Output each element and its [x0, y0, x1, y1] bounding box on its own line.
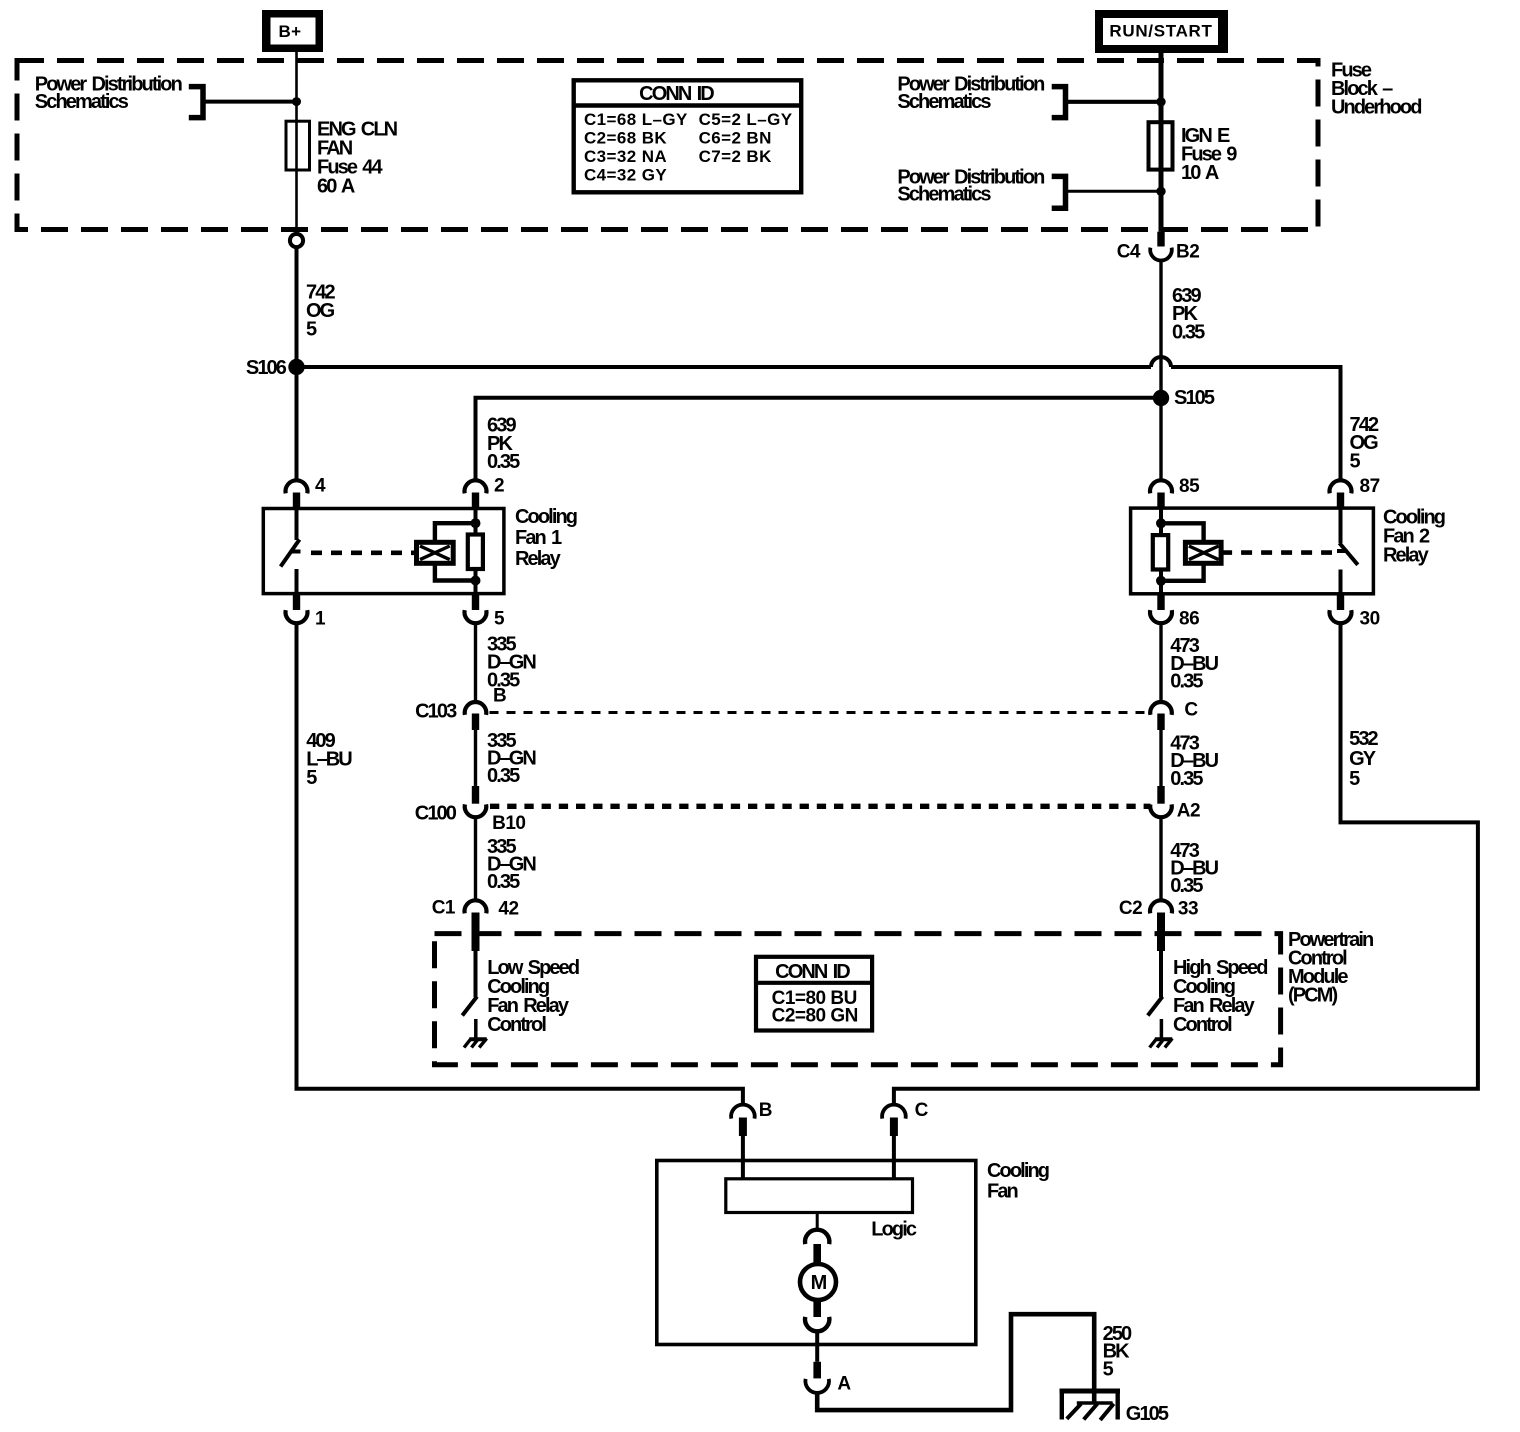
off-page bracket (left) [189, 87, 203, 118]
wire B into logic module [741, 1136, 745, 1179]
wire 473 D-BU C to A2 [1159, 730, 1162, 786]
wire 335 D-GN C103 to C100 [474, 730, 477, 786]
wire branch down to relay 2 pin 87 [1339, 365, 1343, 480]
svg-text:Schematics: Schematics [35, 91, 129, 113]
svg-text:G105: G105 [1126, 1403, 1169, 1425]
svg-text:C4=32 GY: C4=32 GY [584, 165, 667, 184]
wire 409 L-BU 5 to cooling fan terminal B [297, 624, 743, 1104]
svg-text:C: C [1184, 700, 1198, 721]
junction dot IGN feed [1156, 97, 1165, 106]
svg-text:30: 30 [1360, 608, 1380, 629]
svg-text:CONN ID: CONN ID [775, 961, 850, 983]
svg-text:B+: B+ [278, 22, 301, 41]
connector C4 / B2 [1157, 232, 1164, 247]
svg-text:RUN/START: RUN/START [1109, 21, 1212, 40]
connector C103 terminal C (right) [1150, 702, 1172, 715]
svg-text:60 A: 60 A [317, 175, 355, 197]
svg-text:Schematics: Schematics [897, 91, 991, 113]
relay 1 pin 1 connector [293, 594, 300, 610]
svg-text:(PCM): (PCM) [1288, 984, 1338, 1006]
svg-text:A2: A2 [1177, 800, 1200, 821]
junction dot B+ feed [292, 97, 301, 106]
wire 335 D-GN C100 to PCM C1 [474, 817, 477, 898]
relay 1 coil crossed box [417, 542, 454, 563]
wire motor to terminal A [815, 1331, 819, 1362]
svg-text:C3=32 NA: C3=32 NA [584, 147, 667, 166]
PCM ground (high speed) [1155, 1037, 1172, 1041]
svg-text:2: 2 [494, 475, 504, 496]
connector terminal A (cooling fan) [813, 1362, 821, 1379]
svg-text:C6=2 BN: C6=2 BN [699, 129, 772, 148]
svg-text:Schematics: Schematics [897, 184, 991, 206]
wire C into logic module [892, 1136, 896, 1179]
relay 2 pin 30 connector [1337, 594, 1344, 610]
relay 1 switch [295, 509, 299, 541]
wire B+ drop [295, 52, 298, 122]
PCM ground (low speed) [469, 1037, 486, 1041]
svg-text:M: M [811, 1272, 827, 1294]
svg-text:Control: Control [1173, 1014, 1232, 1036]
relay 1 coil element [474, 509, 478, 536]
cooling fan logic module box [726, 1179, 913, 1213]
wire 473 D-BU A2 to PCM C2 [1159, 817, 1162, 898]
junction dot fuse 9 output [1156, 187, 1165, 196]
svg-text:Cooling: Cooling [515, 506, 577, 528]
wire S106 bus to cooling fan 2 relay [297, 365, 1152, 369]
relay 2 pin 87 connector [1330, 480, 1352, 493]
fuse ENG CLN FAN Fuse 44 60 A [286, 121, 310, 170]
inline connector (circle) below fuse block [290, 234, 303, 247]
wire S105 to relay 1 pin 2 [476, 398, 1162, 480]
connector C103 [465, 702, 487, 715]
PCM low speed control switch [474, 951, 478, 997]
wire 742 OG 5 to S106 [295, 247, 299, 367]
connector C100 terminal A2 (right) [1157, 786, 1164, 804]
relay U1 Cooling Fan 1 Relay box [263, 509, 504, 594]
ground G105 symbol [1060, 1389, 1121, 1394]
svg-text:0.35: 0.35 [1170, 768, 1203, 790]
svg-text:C: C [915, 1100, 929, 1121]
svg-text:85: 85 [1179, 476, 1200, 497]
relay 2 coil bracket wires [1163, 523, 1204, 542]
svg-text:Relay: Relay [515, 548, 562, 570]
power symbol RUN/START [1095, 10, 1228, 53]
cooling fan box [657, 1161, 976, 1345]
relay 2 switch [1339, 508, 1343, 543]
svg-text:42: 42 [498, 898, 518, 919]
splice S106 [288, 359, 304, 375]
svg-text:C100: C100 [415, 803, 457, 825]
relay 2 coil crossed box [1185, 542, 1221, 563]
svg-text:86: 86 [1179, 608, 1199, 629]
svg-text:0.35: 0.35 [487, 765, 520, 787]
wire bracket to fuse 9 output [1066, 190, 1162, 193]
svg-text:Underhood: Underhood [1331, 96, 1421, 118]
svg-text:Control: Control [487, 1014, 546, 1036]
svg-text:0.35: 0.35 [1170, 670, 1203, 692]
svg-text:C7=2 BK: C7=2 BK [699, 147, 773, 166]
off-page bracket (right lower) [1052, 176, 1066, 208]
connector C1 / 42 [464, 900, 486, 913]
svg-text:A: A [837, 1373, 851, 1394]
dashed connector line C103 to C [490, 711, 1151, 714]
off-page bracket (right upper) [1052, 87, 1066, 118]
svg-text:C1=68 L–GY: C1=68 L–GY [584, 110, 688, 129]
svg-text:C5=2 L–GY: C5=2 L–GY [699, 110, 793, 129]
svg-text:Logic: Logic [871, 1219, 917, 1241]
splice S105 [1153, 390, 1169, 406]
wire 473 D-BU pin86 to C [1159, 624, 1162, 701]
relay 1 pin 2 connector [464, 480, 486, 493]
svg-text:C2=68 BK: C2=68 BK [584, 129, 667, 148]
wire 335 D-GN pin5 to C103 [474, 624, 477, 701]
relay U2 Cooling Fan 2 Relay box [1131, 508, 1374, 594]
PCM high speed control switch [1159, 951, 1163, 997]
relay 2 coil element [1159, 508, 1163, 535]
wire RUN/START drop [1159, 53, 1164, 122]
wire logic to motor [816, 1213, 819, 1230]
fuse block CONN ID table [574, 80, 802, 192]
svg-text:Cooling: Cooling [987, 1160, 1049, 1182]
wire 639 PK 0.35 to S105 [1159, 260, 1162, 480]
svg-text:GY: GY [1349, 748, 1377, 770]
wire bracket to IGN feed [1066, 100, 1162, 104]
wire 742 OG into pin 4 [295, 367, 299, 480]
PCM CONN ID table [756, 957, 872, 1031]
svg-text:B: B [759, 1100, 772, 1121]
wire fuse 9 to C4 connector [1159, 170, 1164, 232]
svg-text:CONN ID: CONN ID [639, 83, 714, 105]
svg-text:S106: S106 [246, 357, 287, 379]
connector terminal B (cooling fan) [731, 1105, 755, 1119]
fuse IGN E Fuse 9 10 A [1149, 122, 1173, 169]
wire fuse 44 to connector [295, 170, 298, 234]
svg-text:0.35: 0.35 [1170, 875, 1203, 897]
fuse block underhood dashed box [17, 61, 1318, 230]
motor M [800, 1264, 836, 1300]
connector terminal C (cooling fan) [882, 1105, 906, 1119]
relay 1 pin 4 connector [286, 480, 308, 493]
svg-text:10 A: 10 A [1181, 162, 1219, 184]
connector C100 stub [472, 786, 479, 804]
relay 2 pin 86 connector [1157, 594, 1164, 610]
connector C100 [465, 804, 487, 817]
svg-text:C2=80 GN: C2=80 GN [772, 1005, 858, 1026]
motor connector (upper) [805, 1230, 829, 1244]
svg-text:4: 4 [315, 475, 326, 496]
relay 1 actuator dashed link [311, 550, 417, 555]
wire through fuse 9 [1159, 122, 1164, 169]
relay 1 coil bracket wires [435, 523, 473, 542]
svg-text:1: 1 [315, 608, 326, 629]
PCM dashed box [435, 934, 1281, 1065]
svg-text:0.35: 0.35 [487, 871, 520, 893]
wire through fuse 44 [295, 122, 298, 171]
svg-text:B10: B10 [492, 813, 525, 834]
svg-text:5: 5 [494, 608, 505, 629]
power symbol B+ [262, 10, 323, 52]
svg-text:33: 33 [1178, 898, 1198, 919]
svg-text:Fan 1: Fan 1 [515, 527, 562, 549]
relay 2 actuator dashed link [1221, 550, 1332, 555]
svg-text:B2: B2 [1176, 241, 1199, 262]
wire 532 GY 5 from relay2 pin 30 to cooling fan C [894, 624, 1478, 1104]
svg-text:C103: C103 [415, 701, 457, 723]
svg-text:C1: C1 [432, 898, 456, 919]
svg-text:Relay: Relay [1383, 544, 1430, 566]
svg-text:87: 87 [1360, 476, 1380, 497]
relay 1 pin 5 connector [472, 594, 479, 610]
wire 250 BK 5 terminal A to G105 [817, 1314, 1094, 1410]
svg-text:S105: S105 [1174, 387, 1215, 409]
svg-text:0.35: 0.35 [1172, 321, 1205, 343]
svg-text:C2: C2 [1119, 898, 1142, 919]
svg-text:532: 532 [1349, 728, 1378, 750]
relay 2 pin 85 connector [1150, 480, 1172, 493]
svg-text:B: B [493, 685, 506, 706]
svg-text:0.35: 0.35 [487, 451, 520, 473]
connector C2 / 33 [1150, 900, 1172, 913]
motor connector (lower) [813, 1301, 821, 1318]
svg-text:Fan: Fan [987, 1181, 1018, 1203]
wire bracket to B+ feed [203, 100, 297, 104]
dotted connector line C100 to A2 [490, 804, 1150, 809]
svg-text:C4: C4 [1117, 241, 1141, 262]
